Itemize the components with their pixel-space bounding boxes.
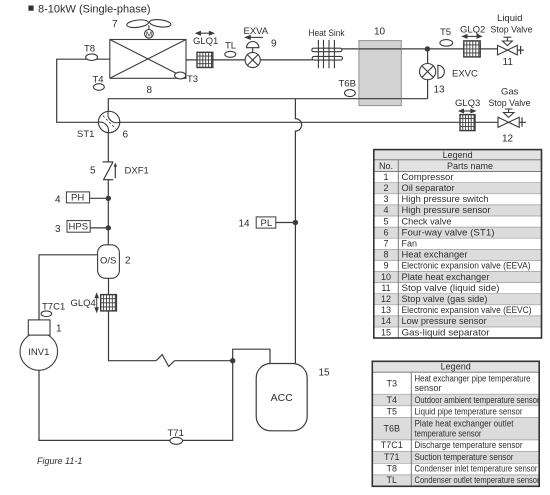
svg-text:Plate heat exchanger outlet: Plate heat exchanger outlet — [415, 419, 514, 429]
plate heat exchanger 10 — [359, 41, 401, 106]
arrow above GLQ3 — [459, 109, 475, 112]
svg-text:4: 4 — [383, 205, 388, 215]
svg-text:GLQ2: GLQ2 — [460, 25, 485, 36]
svg-text:Electronic expansion valve (EE: Electronic expansion valve (EEVC) — [402, 305, 532, 315]
arrow left of GLQ4 — [95, 294, 98, 312]
svg-text:9: 9 — [383, 261, 388, 271]
sensor T71 ellipse — [170, 437, 183, 444]
svg-text:14: 14 — [239, 219, 251, 230]
svg-text:GLQ3: GLQ3 — [455, 98, 480, 109]
arrow above GLQ2 — [463, 35, 482, 38]
svg-text:T3: T3 — [387, 379, 398, 389]
svg-text:T7C1: T7C1 — [42, 302, 65, 313]
table2 shaded rows — [372, 394, 539, 406]
capillary wavy symbol — [156, 355, 174, 367]
table1 header fill — [374, 150, 542, 172]
wire: junction up to ACC inlet — [233, 349, 270, 363]
svg-text:Compressor: Compressor — [402, 172, 454, 182]
svg-text:PH: PH — [71, 193, 84, 204]
svg-text:T4: T4 — [387, 395, 398, 405]
fan 7 blades — [126, 19, 149, 29]
svg-text:INV1: INV1 — [28, 347, 49, 358]
EXVA arrow — [246, 36, 263, 40]
svg-text:High pressure switch: High pressure switch — [402, 194, 489, 204]
liquid stop valve 11 — [498, 37, 518, 55]
gas stop valve 12 — [498, 109, 519, 127]
svg-text:Condenser inlet temperature se: Condenser inlet temperature sensor — [415, 464, 538, 474]
svg-text:11: 11 — [503, 57, 514, 68]
wire: liquid valve service port — [517, 46, 524, 54]
svg-text:Liquid pipe temperature sensor: Liquid pipe temperature sensor — [415, 406, 523, 416]
svg-text:5: 5 — [90, 166, 96, 177]
wire: gas valve to service port — [475, 117, 526, 126]
svg-text:ACC: ACC — [271, 392, 294, 404]
svg-text:EXVC: EXVC — [452, 69, 478, 80]
table2 outer border — [372, 361, 539, 486]
table1 grid lines — [374, 183, 542, 327]
svg-text:Heat Sink: Heat Sink — [309, 28, 345, 39]
svg-text:PL: PL — [261, 218, 273, 229]
junction dot PH — [106, 196, 111, 201]
svg-text:T4: T4 — [93, 75, 104, 86]
compressor terminal box — [28, 320, 50, 335]
compressor INV1 — [20, 333, 58, 371]
svg-text:Stop valve (liquid side): Stop valve (liquid side) — [402, 283, 500, 293]
junction dot PL — [293, 220, 298, 225]
svg-text:Gas-liquid separator: Gas-liquid separator — [402, 327, 490, 337]
wire: EXVA to heat sink — [260, 59, 313, 61]
svg-text:12: 12 — [381, 294, 391, 304]
svg-text:Suction temperature sensor: Suction temperature sensor — [415, 452, 514, 462]
svg-text:13: 13 — [381, 305, 391, 315]
svg-text:Stop Valve: Stop Valve — [489, 98, 531, 109]
svg-text:5: 5 — [383, 216, 388, 226]
sensor TL ellipse — [225, 51, 236, 57]
wire: heat exchanger right to EXVA — [186, 59, 245, 61]
arrow above GLQ1 — [196, 32, 213, 35]
wire: junction down to suction line and compressor — [39, 361, 233, 441]
svg-text:15: 15 — [319, 368, 331, 379]
wire: heat sink out to liquid stop valve — [342, 48, 498, 50]
svg-text:Low pressure sensor: Low pressure sensor — [402, 316, 487, 326]
wire: ST1 right port to gas stop valve — [120, 121, 460, 123]
heat sink — [312, 40, 343, 68]
filter GLQ1 — [197, 52, 213, 67]
svg-text:Heat exchanger: Heat exchanger — [402, 250, 468, 260]
svg-text:Condenser outlet temperature s: Condenser outlet temperature sensor — [415, 475, 540, 485]
filter GLQ2 — [464, 41, 480, 57]
svg-text:Check valve: Check valve — [402, 216, 452, 226]
check valve DXF1 — [103, 162, 116, 180]
svg-text:8-10kW (Single-phase): 8-10kW (Single-phase) — [38, 4, 151, 16]
svg-text:Gas: Gas — [501, 87, 519, 98]
svg-text:T6B: T6B — [384, 424, 401, 434]
wire: PH branch — [90, 197, 109, 199]
svg-text:4: 4 — [55, 195, 61, 206]
wire: capillary to suction junction — [175, 360, 233, 362]
svg-text:10: 10 — [374, 27, 386, 38]
wire: HPS branch — [90, 227, 108, 229]
pressure switch HPS box — [67, 221, 90, 233]
oil separator O/S — [98, 245, 120, 278]
table2 grid lines — [372, 394, 539, 475]
svg-text:ST1: ST1 — [77, 129, 94, 140]
table2 header fill — [372, 361, 539, 372]
svg-text:T6B: T6B — [339, 79, 356, 90]
pressure switch PH box — [66, 192, 89, 203]
filter GLQ3 — [460, 115, 475, 131]
svg-text:9: 9 — [271, 39, 277, 50]
svg-text:T71: T71 — [384, 452, 400, 462]
svg-text:Legend: Legend — [443, 150, 473, 160]
legend parts table — [374, 150, 542, 338]
junction dot liquid line — [425, 46, 430, 51]
sensor T6B ellipse — [345, 90, 356, 97]
svg-text:12: 12 — [502, 134, 514, 145]
svg-text:T7C1: T7C1 — [381, 440, 403, 450]
svg-text:temperature sensor: temperature sensor — [415, 428, 482, 438]
svg-text:GLQ1: GLQ1 — [193, 36, 218, 47]
wire: GLQ4 down, oil return to junction — [109, 311, 157, 361]
svg-text:Four-way valve (ST1): Four-way valve (ST1) — [402, 227, 495, 237]
svg-text:Figure 11-1: Figure 11-1 — [37, 456, 82, 466]
wire: discharge line compressor to oil separator left — [39, 255, 98, 320]
four-way valve ST1 — [98, 111, 119, 132]
svg-text:13: 13 — [434, 85, 446, 96]
svg-text:10: 10 — [381, 272, 391, 282]
svg-text:O/S: O/S — [100, 256, 116, 267]
svg-text:1: 1 — [383, 172, 388, 182]
svg-text:TL: TL — [225, 41, 236, 52]
svg-text:Electronic expansion valve (EE: Electronic expansion valve (EEVA) — [402, 261, 531, 271]
expansion valve EXVC — [420, 64, 445, 80]
sensor T8 ellipse — [86, 54, 98, 61]
wire: ST1 bottom port down to check valve — [107, 133, 109, 162]
svg-text:Outdoor ambient temperature se: Outdoor ambient temperature sensor — [415, 395, 540, 405]
wire: suction riser to ACC with hop over gas line — [295, 99, 301, 364]
wire: check valve to oil separator top — [107, 180, 109, 245]
svg-text:Discharge temperature sensor: Discharge temperature sensor — [415, 440, 523, 450]
svg-text:Heat exchanger pipe temperatur: Heat exchanger pipe temperature — [415, 374, 531, 384]
svg-text:15: 15 — [381, 327, 391, 337]
svg-text:6: 6 — [383, 227, 388, 237]
svg-text:GLQ4: GLQ4 — [71, 298, 96, 309]
junction dot oil return — [230, 358, 235, 363]
svg-text:EXVA: EXVA — [244, 26, 269, 37]
filter GLQ4 — [101, 295, 117, 311]
svg-text:Parts name: Parts name — [447, 161, 493, 171]
svg-text:T3: T3 — [187, 74, 198, 85]
table1 outer border — [374, 150, 542, 338]
fan motor stem — [148, 25, 150, 29]
svg-text:T5: T5 — [440, 27, 451, 38]
sensor T7C1 ellipse — [41, 311, 52, 317]
title bullet — [28, 6, 33, 11]
accumulator ACC — [256, 364, 307, 431]
wire: PL branch — [276, 222, 296, 224]
wire: oil separator bottom to GLQ4 — [108, 278, 110, 294]
svg-text:Legend: Legend — [441, 362, 471, 372]
svg-text:T8: T8 — [84, 44, 95, 55]
sensor T3 ellipse — [175, 72, 186, 79]
svg-text:3: 3 — [383, 194, 388, 204]
wire: EXVC branch vertical — [427, 49, 429, 99]
svg-text:7: 7 — [112, 19, 118, 30]
svg-text:No.: No. — [379, 161, 393, 171]
svg-text:Fan: Fan — [402, 239, 418, 249]
sensor legend table — [372, 361, 539, 486]
svg-text:T71: T71 — [168, 428, 184, 439]
sensor T5 ellipse — [440, 40, 453, 47]
redraw pipes over plate hx — [359, 49, 401, 99]
svg-text:Plate heat exchanger: Plate heat exchanger — [402, 272, 490, 282]
sensor T4 ellipse — [94, 84, 105, 91]
svg-text:T5: T5 — [387, 406, 398, 416]
svg-text:8: 8 — [147, 85, 153, 96]
svg-text:14: 14 — [381, 316, 391, 326]
table1 shaded rows — [374, 183, 542, 194]
svg-text:TL: TL — [387, 475, 398, 485]
heat exchanger 8 — [110, 40, 186, 79]
svg-text:Stop Valve: Stop Valve — [491, 25, 533, 36]
svg-text:High pressure sensor: High pressure sensor — [402, 205, 491, 215]
svg-text:HPS: HPS — [69, 222, 89, 233]
svg-text:1: 1 — [56, 324, 62, 335]
svg-text:Liquid: Liquid — [497, 13, 523, 24]
svg-text:3: 3 — [55, 224, 61, 235]
wire: heat exchanger left to ST1 left port — [57, 59, 110, 122]
fan motor M — [145, 30, 154, 39]
svg-text:T8: T8 — [387, 464, 398, 474]
low pressure sensor PL box — [256, 217, 276, 228]
svg-text:sensor: sensor — [415, 383, 442, 393]
svg-text:8: 8 — [383, 250, 388, 260]
wire: ST1 top port up and right to EXVC drop — [108, 99, 427, 112]
svg-text:6: 6 — [123, 130, 129, 141]
svg-text:M: M — [146, 30, 152, 39]
svg-text:DXF1: DXF1 — [125, 166, 149, 177]
svg-text:11: 11 — [381, 283, 390, 293]
svg-text:2: 2 — [383, 183, 388, 193]
svg-text:7: 7 — [383, 239, 388, 249]
svg-text:2: 2 — [125, 256, 131, 267]
svg-text:Oil separator: Oil separator — [402, 183, 455, 193]
junction dot HPS — [106, 225, 111, 230]
expansion valve EXVA — [245, 42, 260, 68]
svg-text:Stop valve (gas side): Stop valve (gas side) — [402, 294, 488, 304]
